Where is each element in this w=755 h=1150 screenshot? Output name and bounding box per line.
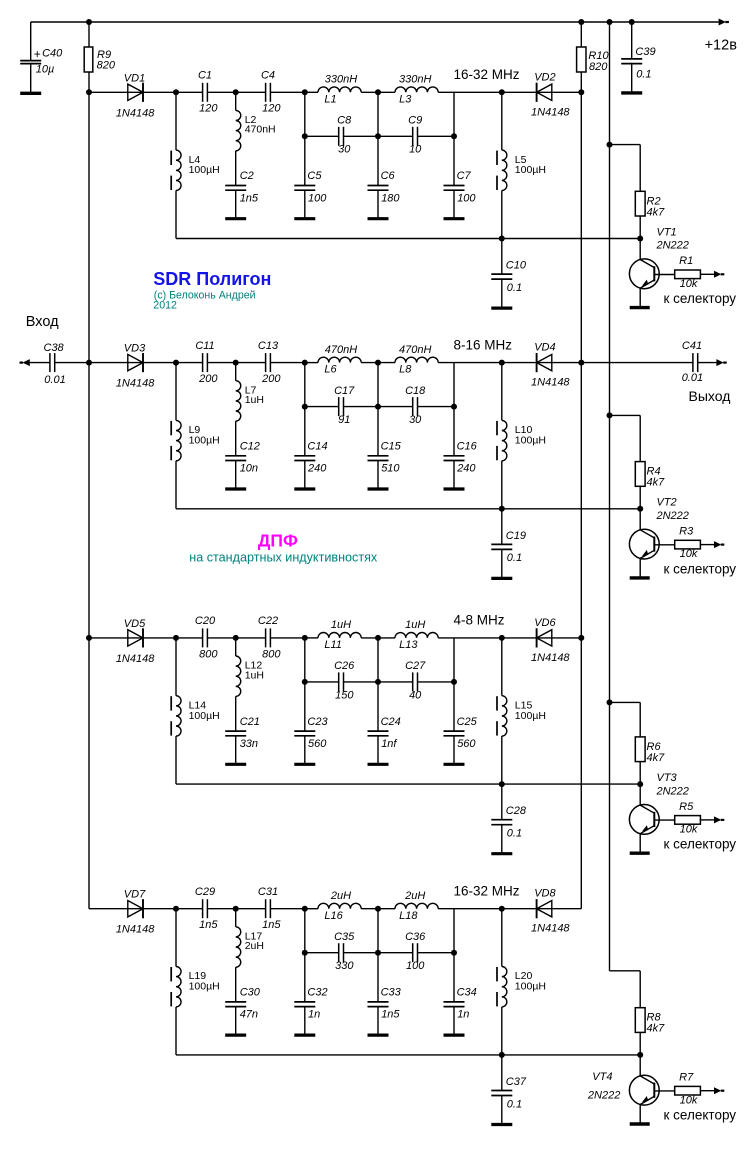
svg-text:33n: 33n [240, 738, 258, 750]
svg-text:10k: 10k [680, 548, 698, 560]
svg-text:100: 100 [308, 192, 327, 204]
svg-text:0.1: 0.1 [507, 828, 522, 840]
svg-text:240: 240 [307, 463, 327, 475]
svg-text:1nf: 1nf [381, 738, 397, 750]
svg-text:C10: C10 [506, 260, 527, 272]
svg-text:91: 91 [338, 414, 350, 426]
svg-text:1n5: 1n5 [240, 192, 259, 204]
svg-text:1n: 1n [308, 1009, 320, 1021]
svg-text:2uH: 2uH [330, 890, 351, 902]
svg-text:C5: C5 [307, 170, 322, 182]
svg-text:1uH: 1uH [405, 619, 425, 631]
svg-text:16-32 MHz: 16-32 MHz [454, 884, 520, 899]
svg-text:VD7: VD7 [124, 889, 146, 901]
svg-text:100µH: 100µH [515, 710, 546, 722]
svg-text:1uH: 1uH [331, 619, 351, 631]
svg-text:R5: R5 [679, 801, 694, 813]
svg-text:C32: C32 [307, 987, 327, 999]
svg-text:2N222: 2N222 [656, 240, 689, 252]
svg-text:C39: C39 [635, 46, 655, 58]
svg-text:VT1: VT1 [657, 226, 677, 238]
svg-text:16-32 MHz: 16-32 MHz [454, 67, 520, 82]
svg-text:4-8 MHz: 4-8 MHz [454, 613, 505, 628]
svg-text:820: 820 [589, 61, 608, 73]
svg-text:1N4148: 1N4148 [531, 652, 570, 664]
svg-text:1n: 1n [457, 1009, 469, 1021]
svg-text:C27: C27 [405, 660, 426, 672]
svg-text:+: + [34, 47, 41, 61]
svg-text:C23: C23 [307, 716, 328, 728]
svg-text:C37: C37 [506, 1076, 527, 1088]
svg-text:330nH: 330nH [399, 74, 431, 86]
svg-text:VD3: VD3 [124, 343, 146, 355]
svg-text:10µ: 10µ [36, 63, 55, 75]
svg-text:R3: R3 [679, 526, 694, 538]
svg-text:1n5: 1n5 [199, 919, 218, 931]
svg-text:10n: 10n [240, 463, 258, 475]
svg-text:C21: C21 [240, 716, 260, 728]
svg-text:1uH: 1uH [245, 669, 264, 681]
svg-text:C30: C30 [240, 987, 261, 999]
svg-text:8-16 MHz: 8-16 MHz [454, 337, 513, 352]
svg-text:47n: 47n [240, 1009, 258, 1021]
svg-text:4k7: 4k7 [647, 1023, 666, 1035]
svg-text:C17: C17 [334, 385, 355, 397]
svg-text:C9: C9 [408, 115, 422, 127]
svg-text:C33: C33 [381, 987, 402, 999]
svg-text:C22: C22 [258, 615, 278, 627]
svg-text:0.01: 0.01 [682, 372, 703, 384]
svg-text:10k: 10k [680, 278, 698, 290]
svg-text:C1: C1 [198, 70, 212, 82]
svg-text:800: 800 [199, 648, 218, 660]
svg-text:4k7: 4k7 [647, 752, 666, 764]
svg-text:2N222: 2N222 [656, 785, 689, 797]
svg-text:VD1: VD1 [124, 72, 145, 84]
svg-text:C8: C8 [337, 115, 352, 127]
svg-text:2012: 2012 [153, 300, 177, 312]
svg-text:к селектору: к селектору [664, 1108, 737, 1123]
svg-text:1n5: 1n5 [262, 919, 281, 931]
svg-text:1N4148: 1N4148 [531, 923, 570, 935]
svg-text:C20: C20 [195, 615, 216, 627]
svg-text:30: 30 [338, 144, 351, 156]
svg-text:120: 120 [262, 103, 281, 115]
svg-text:Вход: Вход [26, 314, 59, 330]
svg-text:120: 120 [199, 103, 218, 115]
svg-text:C16: C16 [457, 441, 478, 453]
svg-text:C36: C36 [405, 931, 426, 943]
svg-text:1uH: 1uH [245, 394, 264, 406]
svg-text:Выход: Выход [689, 388, 731, 404]
svg-text:10: 10 [409, 144, 422, 156]
svg-text:2uH: 2uH [404, 890, 425, 902]
svg-text:C18: C18 [405, 385, 426, 397]
svg-text:VD8: VD8 [534, 888, 556, 900]
svg-text:1N4148: 1N4148 [531, 106, 570, 118]
svg-text:100µH: 100µH [189, 164, 220, 176]
svg-text:C26: C26 [334, 660, 355, 672]
svg-text:VT4: VT4 [592, 1071, 612, 1083]
svg-text:R1: R1 [679, 255, 693, 267]
svg-text:200: 200 [261, 373, 281, 385]
svg-text:L6: L6 [324, 364, 337, 376]
svg-text:4k7: 4k7 [647, 206, 666, 218]
svg-text:200: 200 [198, 373, 218, 385]
svg-text:C29: C29 [195, 886, 215, 898]
svg-text:470nH: 470nH [245, 124, 276, 136]
svg-text:0.01: 0.01 [44, 374, 65, 386]
svg-text:C34: C34 [457, 987, 477, 999]
svg-text:VD6: VD6 [534, 617, 556, 629]
svg-text:330nH: 330nH [325, 74, 357, 86]
svg-text:40: 40 [409, 689, 422, 701]
svg-text:0.1: 0.1 [507, 1098, 522, 1110]
svg-text:330: 330 [335, 960, 354, 972]
svg-text:VD4: VD4 [534, 342, 555, 354]
svg-text:C11: C11 [195, 340, 214, 352]
svg-text:L13: L13 [399, 639, 418, 651]
svg-text:SDR Полигон: SDR Полигон [153, 269, 271, 289]
svg-text:C28: C28 [506, 805, 527, 817]
svg-text:L16: L16 [324, 910, 343, 922]
svg-text:C25: C25 [457, 716, 478, 728]
svg-text:C40: C40 [42, 47, 63, 59]
svg-text:1N4148: 1N4148 [116, 107, 155, 119]
svg-text:100: 100 [457, 192, 476, 204]
svg-text:VD5: VD5 [124, 618, 146, 630]
svg-text:L1: L1 [324, 93, 336, 105]
svg-text:470nH: 470nH [325, 344, 357, 356]
svg-text:100µH: 100µH [189, 710, 220, 722]
svg-text:100µH: 100µH [189, 435, 220, 447]
svg-text:C14: C14 [307, 441, 327, 453]
svg-text:на стандартных индуктивностях: на стандартных индуктивностях [189, 550, 378, 564]
svg-text:100µH: 100µH [189, 981, 220, 993]
svg-text:100µH: 100µH [515, 435, 546, 447]
svg-text:C38: C38 [44, 342, 65, 354]
svg-text:2N222: 2N222 [656, 510, 689, 522]
svg-text:1n5: 1n5 [381, 1009, 400, 1021]
svg-text:1N4148: 1N4148 [116, 653, 155, 665]
svg-text:C12: C12 [240, 441, 260, 453]
svg-text:ДПФ: ДПФ [258, 530, 298, 550]
svg-text:4k7: 4k7 [647, 477, 666, 489]
svg-text:VT2: VT2 [657, 497, 677, 509]
svg-text:470nH: 470nH [399, 344, 431, 356]
svg-text:560: 560 [457, 738, 476, 750]
svg-text:560: 560 [308, 738, 327, 750]
svg-text:100µH: 100µH [515, 164, 546, 176]
svg-text:C4: C4 [261, 70, 275, 82]
svg-text:C31: C31 [258, 886, 278, 898]
svg-text:10k: 10k [680, 1094, 698, 1106]
svg-text:100: 100 [406, 960, 425, 972]
svg-text:C35: C35 [334, 931, 355, 943]
svg-text:VT3: VT3 [657, 772, 678, 784]
svg-text:C15: C15 [381, 441, 402, 453]
svg-text:L18: L18 [399, 910, 418, 922]
svg-text:R7: R7 [679, 1072, 694, 1084]
svg-text:1N4148: 1N4148 [116, 924, 155, 936]
svg-text:240: 240 [456, 463, 476, 475]
svg-text:800: 800 [262, 648, 281, 660]
svg-text:10k: 10k [680, 824, 698, 836]
svg-text:0.1: 0.1 [507, 282, 522, 294]
svg-text:к селектору: к селектору [664, 561, 737, 576]
svg-text:0.1: 0.1 [636, 68, 651, 80]
svg-text:1N4148: 1N4148 [531, 377, 570, 389]
svg-text:+12в: +12в [705, 38, 738, 54]
svg-text:C7: C7 [457, 170, 472, 182]
svg-text:2N222: 2N222 [587, 1090, 620, 1102]
svg-text:100µH: 100µH [515, 981, 546, 993]
svg-text:к селектору: к селектору [664, 291, 737, 306]
svg-text:к селектору: к селектору [664, 837, 737, 852]
svg-text:C6: C6 [381, 170, 396, 182]
svg-text:1N4148: 1N4148 [116, 378, 155, 390]
svg-text:0.1: 0.1 [507, 552, 522, 564]
svg-text:150: 150 [335, 689, 354, 701]
svg-text:820: 820 [97, 59, 116, 71]
svg-text:30: 30 [409, 414, 422, 426]
svg-text:510: 510 [381, 463, 400, 475]
svg-text:L3: L3 [399, 93, 412, 105]
svg-text:C41: C41 [682, 340, 702, 352]
svg-text:C24: C24 [381, 716, 401, 728]
svg-text:VD2: VD2 [534, 71, 555, 83]
svg-text:L8: L8 [399, 364, 412, 376]
svg-text:C2: C2 [240, 170, 254, 182]
svg-text:C19: C19 [506, 530, 526, 542]
svg-text:L11: L11 [324, 639, 342, 651]
svg-text:C13: C13 [258, 340, 279, 352]
svg-text:180: 180 [381, 192, 400, 204]
svg-text:2uH: 2uH [245, 940, 264, 952]
